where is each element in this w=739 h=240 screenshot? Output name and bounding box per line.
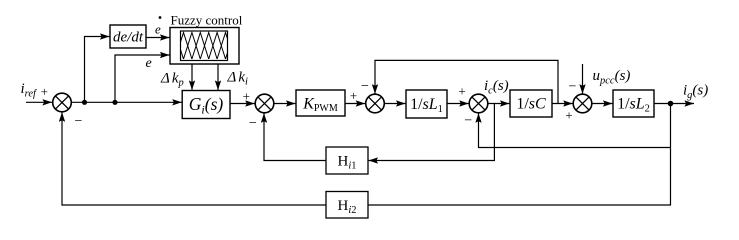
svg-text:Gi(s): Gi(s) xyxy=(189,94,224,117)
block 1/sL2 xyxy=(613,90,654,117)
svg-text:de/dt: de/dt xyxy=(113,30,144,46)
wire i_g feedback to junction 4 xyxy=(479,113,671,147)
svg-text:+: + xyxy=(41,84,48,99)
wire delta-kp arrow down to G_i(s) xyxy=(191,64,193,90)
svg-text:−: − xyxy=(75,114,83,129)
node dot 2 xyxy=(112,100,117,105)
svg-text:+: + xyxy=(350,88,357,103)
block 1/sC xyxy=(510,90,552,117)
fuzzy controller block outer box xyxy=(170,28,239,65)
block 1/sL1 xyxy=(406,90,447,118)
svg-text:−: − xyxy=(464,114,472,129)
summing junction 1 xyxy=(53,93,72,112)
svg-text:Fuzzy control: Fuzzy control xyxy=(171,13,243,28)
wire H_i1 output up to junction 2 xyxy=(264,113,326,160)
block de/dt xyxy=(110,25,146,48)
wire junction 2 to K_PWM xyxy=(274,103,296,105)
node dot 1 xyxy=(82,100,87,105)
summing junction 3 xyxy=(366,94,385,113)
node i_g output dot xyxy=(668,101,674,107)
wire junction 1 to G_i(s) xyxy=(71,101,182,103)
wire H_i2 output up to junction 1 xyxy=(62,112,326,205)
wire top feedback (u_c) from tap to junction 3 xyxy=(375,60,558,103)
wire K_PWM to junction 3 xyxy=(345,103,365,105)
summing junction 2 xyxy=(255,94,274,113)
svg-text:ig(s): ig(s) xyxy=(683,83,708,102)
wire junction 3 to 1/sL1 xyxy=(384,103,405,105)
svg-text:−: − xyxy=(361,79,369,94)
svg-text:iref: iref xyxy=(21,81,39,100)
svg-text:e: e xyxy=(146,56,152,71)
wire G_i(s) to junction 2 xyxy=(230,103,255,105)
svg-text:+: + xyxy=(458,84,465,99)
summing junction 5 xyxy=(573,94,592,113)
svg-text:upcc(s): upcc(s) xyxy=(593,68,631,87)
wire node 1 up to de/dt input xyxy=(85,37,110,103)
svg-text:Δki: Δki xyxy=(227,70,248,88)
wire junction 4 to 1/sC xyxy=(488,103,510,105)
svg-text:e: e xyxy=(155,22,161,37)
wire junction 5 to 1/sL2 xyxy=(592,103,613,105)
block G_i(s) xyxy=(182,91,230,119)
wire 1/sL1 to junction 4 xyxy=(447,103,469,105)
summing junction 4 xyxy=(469,94,488,113)
wire output with arrow xyxy=(654,103,694,105)
svg-text:−: − xyxy=(249,116,257,131)
block H_i1 xyxy=(326,147,368,174)
svg-text:1/sC: 1/sC xyxy=(516,96,546,113)
membership function triangles xyxy=(167,33,243,60)
svg-text:−: − xyxy=(569,79,577,94)
fuzzy controller inner box xyxy=(181,31,228,61)
wire de/dt to fuzzy controller xyxy=(146,37,170,39)
wire delta-ki arrow down to G_i(s) xyxy=(217,64,219,90)
wire input arrow into junction 1 xyxy=(26,101,52,103)
svg-text:KPWM: KPWM xyxy=(302,96,338,115)
svg-text:+: + xyxy=(243,89,250,104)
svg-text:Hi1: Hi1 xyxy=(337,154,356,172)
block H_i2 xyxy=(326,192,368,219)
svg-text:Δkp: Δkp xyxy=(160,71,184,89)
wire i_c tap down to H_i1 xyxy=(369,104,495,161)
svg-text:+: + xyxy=(565,107,572,122)
wire u_pcc input arrow into junction 5 xyxy=(582,64,584,94)
svg-text:1/sL1: 1/sL1 xyxy=(410,96,443,115)
wire i_g feedback vertical xyxy=(368,104,671,206)
block K_PWM xyxy=(296,90,345,116)
wire 1/sC to junction 5 xyxy=(552,103,573,105)
wire node 2 up to fuzzy controller lower input xyxy=(115,55,170,102)
svg-text:ic(s): ic(s) xyxy=(484,78,509,97)
svg-text:1/sL2: 1/sL2 xyxy=(617,96,650,115)
svg-text:Hi2: Hi2 xyxy=(337,198,356,216)
